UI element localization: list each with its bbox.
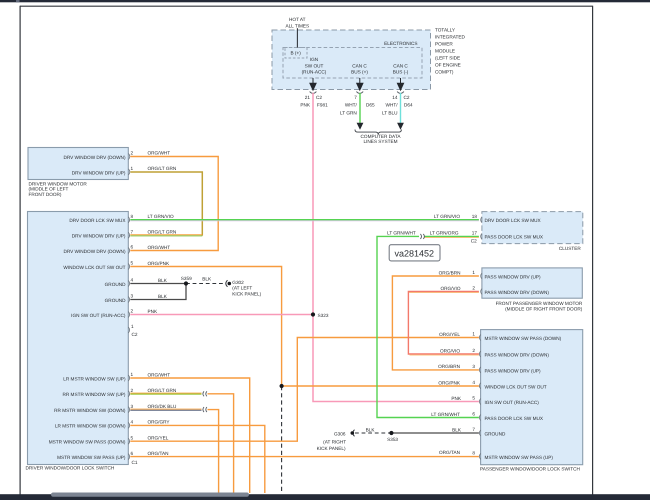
svg-text:ORG/GRY: ORG/GRY (148, 420, 171, 425)
svg-text:7: 7 (354, 95, 357, 100)
svg-text:2: 2 (131, 151, 134, 156)
svg-text:C2: C2 (471, 238, 477, 243)
svg-text:ORG/VIO: ORG/VIO (440, 348, 460, 353)
svg-text:ORG/PNK: ORG/PNK (438, 380, 460, 385)
svg-text:DRV DOOR LCK SW MUX: DRV DOOR LCK SW MUX (69, 218, 126, 223)
svg-text:ORG/PNK: ORG/PNK (148, 261, 170, 266)
svg-text:1: 1 (131, 372, 134, 377)
svg-text:CAN C: CAN C (352, 63, 367, 68)
svg-text:OF ENGINE: OF ENGINE (435, 63, 461, 68)
svg-text:1: 1 (131, 166, 134, 171)
svg-text:7: 7 (131, 230, 134, 235)
svg-text:ORG/LT GRN: ORG/LT GRN (148, 166, 177, 171)
svg-text:FRONT PASSENGER WINDOW MOTOR: FRONT PASSENGER WINDOW MOTOR (496, 301, 583, 306)
svg-text:LT BLU: LT BLU (382, 111, 398, 116)
svg-text:ORG/BRN: ORG/BRN (438, 364, 460, 369)
svg-text:WHT/: WHT/ (345, 103, 358, 108)
svg-text:TOTALLY: TOTALLY (435, 28, 456, 33)
svg-text:FRONT DOOR): FRONT DOOR) (29, 192, 62, 197)
svg-text:WINDOW LCK OUT SW OUT: WINDOW LCK OUT SW OUT (485, 384, 547, 389)
svg-text:C2: C2 (404, 95, 410, 100)
svg-text:6: 6 (131, 245, 134, 250)
svg-text:ORG/LT GRN: ORG/LT GRN (148, 388, 177, 393)
svg-text:POWER: POWER (435, 42, 453, 47)
svg-text:BLK: BLK (202, 277, 212, 282)
svg-text:INTEGRATED: INTEGRATED (435, 35, 465, 40)
svg-text:MSTR WINDOW SW PASS (DOWN): MSTR WINDOW SW PASS (DOWN) (485, 336, 562, 341)
svg-text:(RUN-ACC): (RUN-ACC) (302, 69, 327, 74)
svg-text:IGN SW OUT (RUN-ACC): IGN SW OUT (RUN-ACC) (71, 313, 126, 318)
svg-text:GROUND: GROUND (485, 431, 506, 436)
svg-text:21: 21 (305, 95, 311, 100)
svg-text:C2: C2 (132, 332, 138, 337)
svg-text:C2: C2 (316, 95, 322, 100)
svg-text:G306: G306 (334, 432, 346, 437)
svg-text:GROUND: GROUND (105, 298, 126, 303)
svg-text:RR MSTR WINDOW SW (UP): RR MSTR WINDOW SW (UP) (62, 392, 125, 397)
svg-text:S353: S353 (387, 437, 398, 442)
svg-text:6: 6 (472, 412, 475, 417)
svg-text:DRIVER WINDOW/DOOR LOCK SWITCH: DRIVER WINDOW/DOOR LOCK SWITCH (26, 466, 115, 471)
svg-text:3: 3 (131, 404, 134, 409)
svg-text:ORG/TAN: ORG/TAN (439, 450, 460, 455)
svg-text:DRV WINDOW DRV (UP): DRV WINDOW DRV (UP) (72, 234, 126, 239)
svg-text:ORG/YEL: ORG/YEL (148, 436, 169, 441)
svg-text:MODULE: MODULE (435, 49, 455, 54)
svg-text:KICK PANEL): KICK PANEL) (317, 446, 346, 451)
svg-text:LT GRN/VIO: LT GRN/VIO (434, 214, 460, 219)
svg-text:ORG/YEL: ORG/YEL (439, 332, 460, 337)
svg-text:F981: F981 (317, 103, 328, 108)
svg-text:DRV WINDOW DRV (DOWN): DRV WINDOW DRV (DOWN) (63, 249, 126, 254)
svg-text:D64: D64 (404, 103, 413, 108)
svg-text:PASS WINDOW DRV (UP): PASS WINDOW DRV (UP) (485, 274, 542, 279)
svg-text:8: 8 (472, 451, 475, 456)
svg-text:BLK: BLK (366, 428, 376, 433)
svg-text:PASS WINDOW DRV (DOWN): PASS WINDOW DRV (DOWN) (485, 352, 550, 357)
svg-text:MSTR WINDOW SW PASS (UP): MSTR WINDOW SW PASS (UP) (57, 455, 126, 460)
svg-text:ORG/WHT: ORG/WHT (148, 372, 171, 377)
svg-text:ALL TIMES: ALL TIMES (285, 23, 309, 28)
svg-text:14: 14 (392, 95, 398, 100)
svg-text:MSTR WINDOW SW PASS (UP): MSTR WINDOW SW PASS (UP) (485, 455, 554, 460)
svg-text:PNK: PNK (300, 103, 311, 108)
svg-text:4: 4 (131, 420, 134, 425)
svg-text:LT GRN: LT GRN (340, 111, 357, 116)
svg-text:S323: S323 (318, 313, 329, 318)
svg-text:ORG/LT GRN: ORG/LT GRN (148, 230, 177, 235)
svg-text:(AT LEFT: (AT LEFT (232, 286, 252, 291)
svg-text:ORG/DK BLU: ORG/DK BLU (148, 404, 178, 409)
svg-text:ORG/TAN: ORG/TAN (148, 451, 169, 456)
svg-text:LT GRN/WHT: LT GRN/WHT (387, 231, 416, 236)
svg-text:IGN SW OUT (RUN-ACC): IGN SW OUT (RUN-ACC) (485, 400, 540, 405)
svg-text:WINDOW LCK OUT SW OUT: WINDOW LCK OUT SW OUT (63, 265, 125, 270)
svg-text:SW OUT: SW OUT (305, 63, 324, 68)
svg-text:ELECTRONICS: ELECTRONICS (384, 41, 417, 46)
svg-text:BUS (+): BUS (+) (351, 69, 368, 74)
svg-text:LT GRN/WHT: LT GRN/WHT (431, 412, 460, 417)
svg-text:7: 7 (472, 427, 475, 432)
svg-text:ORG/WHT: ORG/WHT (148, 245, 171, 250)
svg-text:2: 2 (472, 286, 475, 291)
svg-text:17: 17 (472, 231, 478, 236)
svg-text:DRV WINDOW DRV (UP): DRV WINDOW DRV (UP) (72, 170, 126, 175)
svg-text:BLK: BLK (158, 294, 168, 299)
svg-text:LR MSTR WINDOW SW (UP): LR MSTR WINDOW SW (UP) (63, 376, 126, 381)
svg-text:B (+): B (+) (291, 51, 302, 56)
svg-text:(LEFT SIDE: (LEFT SIDE (435, 56, 460, 61)
svg-text:S359: S359 (181, 276, 192, 281)
svg-text:1: 1 (472, 270, 475, 275)
svg-text:LT GRN/ORG: LT GRN/ORG (430, 231, 459, 236)
svg-text:(MIDDLE OF RIGHT FRONT DOOR): (MIDDLE OF RIGHT FRONT DOOR) (505, 306, 583, 311)
svg-text:PNK: PNK (148, 309, 159, 314)
svg-text:BLK: BLK (158, 278, 168, 283)
svg-text:GROUND: GROUND (105, 282, 126, 287)
svg-text:va281452: va281452 (395, 249, 435, 259)
svg-text:KICK PANEL): KICK PANEL) (232, 292, 261, 297)
svg-text:HOT AT: HOT AT (289, 17, 306, 22)
svg-text:PNK: PNK (451, 396, 462, 401)
svg-text:BUS (-): BUS (-) (393, 69, 409, 74)
svg-text:PASS DOOR LCK SW MUX: PASS DOOR LCK SW MUX (485, 235, 544, 240)
svg-text:LT GRN/VIO: LT GRN/VIO (148, 214, 174, 219)
svg-text:CLUSTER: CLUSTER (559, 246, 581, 251)
svg-text:2: 2 (131, 309, 134, 314)
svg-text:PASS DOOR LCK SW MUX: PASS DOOR LCK SW MUX (485, 416, 544, 421)
svg-text:BLK: BLK (452, 427, 462, 432)
svg-text:5: 5 (131, 435, 134, 440)
svg-text:2: 2 (131, 388, 134, 393)
svg-text:5: 5 (472, 396, 475, 401)
svg-text:ORG/VIO: ORG/VIO (440, 286, 460, 291)
svg-text:ORG/WHT: ORG/WHT (148, 151, 171, 156)
svg-text:C1: C1 (132, 460, 138, 465)
svg-text:CAN C: CAN C (393, 63, 408, 68)
svg-text:3: 3 (472, 364, 475, 369)
svg-text:PASS WINDOW DRV (UP): PASS WINDOW DRV (UP) (485, 368, 542, 373)
svg-text:D65: D65 (366, 103, 375, 108)
svg-text:2: 2 (472, 348, 475, 353)
svg-text:1: 1 (131, 324, 134, 329)
svg-text:DRV WINDOW DRV (DOWN): DRV WINDOW DRV (DOWN) (63, 155, 126, 160)
svg-text:3: 3 (131, 294, 134, 299)
svg-text:LINES SYSTEM: LINES SYSTEM (363, 139, 397, 144)
svg-text:4: 4 (131, 278, 134, 283)
svg-text:5: 5 (131, 261, 134, 266)
svg-text:PASS WINDOW DRV (DOWN): PASS WINDOW DRV (DOWN) (485, 290, 550, 295)
svg-text:RR MSTR WINDOW SW (DOWN): RR MSTR WINDOW SW (DOWN) (54, 408, 126, 413)
svg-text:8: 8 (131, 214, 134, 219)
svg-text:IGN: IGN (310, 57, 318, 62)
svg-text:6: 6 (131, 451, 134, 456)
svg-text:MSTR WINDOW SW PASS (DOWN): MSTR WINDOW SW PASS (DOWN) (49, 440, 126, 445)
svg-text:DRV DOOR LCK SW MUX: DRV DOOR LCK SW MUX (485, 218, 542, 223)
svg-text:G302: G302 (232, 280, 244, 285)
svg-text:ORG/BRN: ORG/BRN (439, 270, 461, 275)
svg-text:1: 1 (472, 332, 475, 337)
svg-text:COMPT): COMPT) (435, 70, 454, 75)
svg-text:LR MSTR WINDOW SW (DOWN): LR MSTR WINDOW SW (DOWN) (55, 424, 126, 429)
svg-text:(AT RIGHT: (AT RIGHT (323, 439, 346, 444)
svg-text:WHT/: WHT/ (386, 103, 399, 108)
svg-text:PASSENGER WINDOW/DOOR LOCK SWI: PASSENGER WINDOW/DOOR LOCK SWITCH (480, 466, 580, 471)
svg-text:4: 4 (472, 380, 475, 385)
svg-text:18: 18 (472, 214, 478, 219)
